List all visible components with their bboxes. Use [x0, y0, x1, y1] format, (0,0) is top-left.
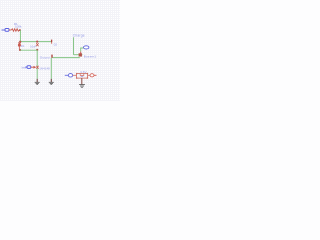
wire bottom rail	[20, 49, 37, 51]
junction node C (big red blob)	[79, 53, 83, 57]
wire (Charge net down)	[73, 37, 75, 55]
capacitor C1 (right branch, X symbol)	[36, 43, 38, 46]
svg-text:10uF: 10uF	[30, 44, 36, 48]
diode D1 (left branch)	[18, 42, 21, 49]
wire (left oval to body)	[73, 74, 77, 76]
grid backdrop	[0, 0, 120, 101]
ground GND2	[49, 79, 54, 85]
buzzer right terminal (red oval)	[90, 74, 97, 77]
pin (red, hook to blob)	[80, 52, 82, 54]
svg-text:D2: D2	[54, 43, 58, 47]
junction node A (rail corner)	[19, 41, 21, 43]
svg-text:1N4148: 1N4148	[39, 66, 50, 70]
svg-text:Buzzer1: Buzzer1	[84, 55, 97, 59]
wire (R1 down to top rail)	[19, 30, 21, 41]
svg-text:Charge: Charge	[73, 33, 85, 37]
wire top rail	[20, 41, 51, 43]
port P2 (blue box)	[25, 66, 31, 69]
buzzer left terminal (blue oval)	[65, 74, 73, 77]
wire (Output to right)	[53, 57, 80, 59]
ground GND3	[79, 85, 85, 88]
pin end (Output tick)	[51, 55, 53, 58]
diode D3 (to vertical wire)	[31, 66, 39, 69]
wire (hook from oval to junction)	[81, 48, 84, 52]
wire (buzzer bottom pin)	[81, 78, 83, 84]
wire (Output down to ground)	[50, 58, 52, 79]
junction (bottom rail left corner)	[19, 49, 21, 51]
resistor R1	[11, 29, 19, 31]
ground GND1	[35, 79, 40, 85]
svg-text:100k: 100k	[15, 24, 22, 28]
port P1 (input terminal)	[2, 29, 10, 32]
probe oval (blue)	[84, 46, 89, 49]
buzzer LS1 body	[76, 73, 88, 79]
junction node B (top rail at right branch)	[36, 41, 38, 43]
pin end (top rail right, red tick)	[51, 40, 53, 44]
wire (port P1 to R1)	[9, 29, 11, 31]
svg-text:Output: Output	[40, 56, 51, 60]
junction (R1 right pin)	[19, 29, 21, 31]
junction (bottom rail right)	[36, 49, 38, 51]
wire (body to right oval)	[88, 74, 90, 76]
wire (Charge net right)	[74, 54, 83, 56]
svg-text:D1: D1	[21, 44, 25, 48]
wire (mid vertical down to ground)	[36, 50, 38, 79]
